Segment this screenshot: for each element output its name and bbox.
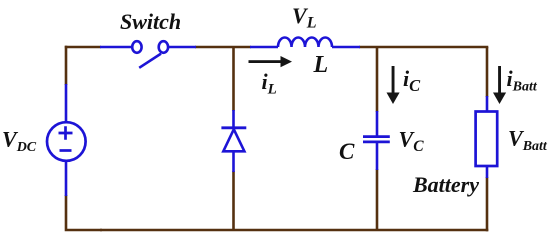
wire capacitor branch top — [376, 47, 379, 112]
wire top-left vertical — [65, 46, 68, 85]
svg-text:Switch: Switch — [120, 9, 181, 34]
svg-text:L: L — [313, 52, 329, 78]
svg-text:C: C — [339, 139, 355, 164]
wire bottom horizontal — [100, 229, 488, 232]
voltage source plus sign — [59, 126, 73, 139]
switch SW contact circle right — [159, 41, 168, 53]
voltage source VDC circle — [47, 122, 86, 161]
voltage source minus sign — [60, 149, 72, 152]
wire top-left horizontal — [65, 46, 101, 49]
svg-text:Battery: Battery — [412, 172, 479, 197]
wire inductor to top-right corner — [359, 46, 488, 49]
wire capacitor bottom lead — [376, 143, 379, 170]
wire battery top lead — [486, 96, 489, 112]
current arrow iL — [249, 56, 293, 67]
capacitor C bottom plate — [363, 141, 390, 144]
wire switch to inductor junction — [195, 46, 251, 49]
battery rectangle — [476, 112, 498, 167]
wire source bottom lead — [65, 161, 68, 196]
switch SW contact circle left — [132, 41, 141, 53]
wire diode top lead — [232, 110, 235, 127]
wire diode branch bottom — [232, 171, 235, 230]
diode D cathode bar — [221, 126, 246, 129]
wire diode branch top — [232, 47, 235, 111]
wire capacitor top lead — [376, 111, 379, 136]
wire left vertical bottom — [65, 195, 102, 231]
capacitor C top plate — [363, 135, 390, 138]
switch SW lever — [139, 54, 161, 68]
wire switch right lead — [169, 46, 196, 49]
wire capacitor branch bottom — [376, 169, 379, 230]
current arrow iC — [387, 66, 400, 104]
wire battery branch top — [486, 47, 489, 97]
wire inductor left lead — [250, 46, 278, 49]
wire battery branch bottom — [486, 177, 489, 231]
wire inductor right lead — [332, 46, 360, 49]
inductor L coil — [278, 38, 332, 48]
wire source top lead — [65, 84, 68, 122]
wire battery bottom lead — [486, 166, 489, 178]
wire switch left lead — [100, 46, 131, 49]
current arrow iBatt — [493, 66, 506, 104]
wire diode bottom lead — [232, 152, 235, 172]
diode D triangle — [223, 129, 244, 151]
